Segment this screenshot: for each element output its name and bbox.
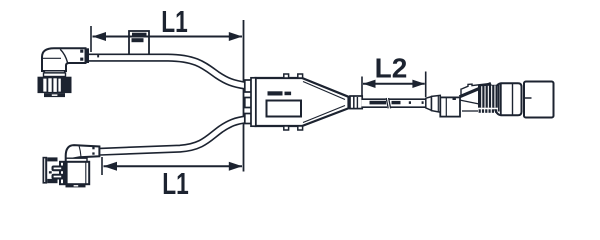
dimension L1 bottom: dimension line	[104, 165, 243, 167]
neck band	[45, 71, 65, 73]
screw dots	[80, 50, 83, 53]
left flange bracket	[43, 157, 48, 184]
printed text on body	[268, 91, 283, 95]
latch lever thick arm	[460, 84, 492, 97]
connector A2: DIN valve right-angle connector (bottom left)	[43, 145, 100, 187]
main body	[60, 162, 89, 184]
dimension L1 top: dimension line	[93, 36, 243, 38]
elbow dome	[66, 145, 100, 160]
label L1 (top)	[161, 4, 188, 39]
cable-entry end bar	[86, 48, 90, 63]
elbow body	[42, 48, 86, 71]
latch left edge	[460, 89, 462, 98]
cable entry ferrule middle	[245, 98, 251, 108]
bottom cap	[44, 93, 65, 97]
wire: bottom branch cable	[100, 120, 246, 152]
cable marker label on top branch	[129, 31, 149, 57]
screw lug 2	[52, 174, 65, 180]
tick on top cable	[97, 54, 99, 58]
moulded label plate	[267, 101, 302, 117]
spring right plate	[498, 84, 500, 112]
taper inner lines	[303, 82, 345, 100]
spring ribs	[478, 85, 498, 113]
left wall	[251, 78, 256, 126]
dimension L1 bottom: left arrowhead	[104, 162, 118, 171]
cable entry ferrule top	[245, 80, 251, 92]
elbow highlight line	[43, 57, 62, 59]
connector B1: right-end connector with latch and spring	[426, 82, 554, 118]
dimension L1 top: extension line left	[90, 26, 92, 52]
dimension L2: right arrowhead	[412, 80, 425, 88]
dimension line over marker	[129, 36, 149, 38]
end block	[524, 82, 554, 118]
dimension L1 bottom: right arrowhead	[229, 162, 243, 171]
screw lug 1	[52, 166, 65, 172]
svg-text:L2: L2	[375, 52, 408, 83]
cylinder	[494, 83, 522, 115]
knurled coupling nut	[38, 77, 72, 93]
rubber boot taper	[426, 97, 432, 111]
screw dots on elbow	[92, 147, 94, 149]
body main outline	[256, 78, 349, 126]
collar under dome	[66, 158, 87, 162]
strain relief	[350, 96, 362, 109]
dimension L1 top: right arrowhead	[229, 32, 243, 41]
base band	[66, 184, 86, 187]
top tabs	[284, 74, 289, 78]
latch lower diagonal	[460, 100, 490, 106]
bottom tabs	[284, 126, 289, 130]
connector A1: M12 right-angle circular connector (top left)	[38, 48, 90, 97]
dimension L2: dimension line	[363, 83, 425, 85]
latch upper outline	[462, 84, 490, 89]
elbow crease	[60, 49, 67, 63]
dimension L2: left arrowhead	[363, 80, 376, 88]
dome inner line	[79, 146, 81, 157]
wire: top branch cable	[89, 58, 247, 86]
Y-splitter body	[245, 74, 362, 130]
stud between lugs	[49, 171, 52, 173]
label L1 (bottom)	[162, 166, 189, 201]
dimension L2: extension line right	[425, 72, 427, 98]
wire: main output cable	[362, 98, 427, 109]
svg-text:L1: L1	[161, 4, 188, 39]
spring bottom line	[462, 110, 478, 112]
dimension L1 bottom: extension line left	[101, 157, 103, 175]
printed marks on cable	[370, 101, 387, 105]
label L2	[375, 52, 408, 83]
cable entry ferrule bottom	[245, 114, 251, 124]
svg-text:L1: L1	[162, 166, 189, 200]
dimension L1 top: left arrowhead	[93, 32, 107, 41]
barrel	[440, 97, 460, 116]
dimension L2: extension line left	[361, 77, 363, 98]
cable break	[387, 98, 389, 109]
central extension line at x=243.5	[243, 20, 245, 172]
